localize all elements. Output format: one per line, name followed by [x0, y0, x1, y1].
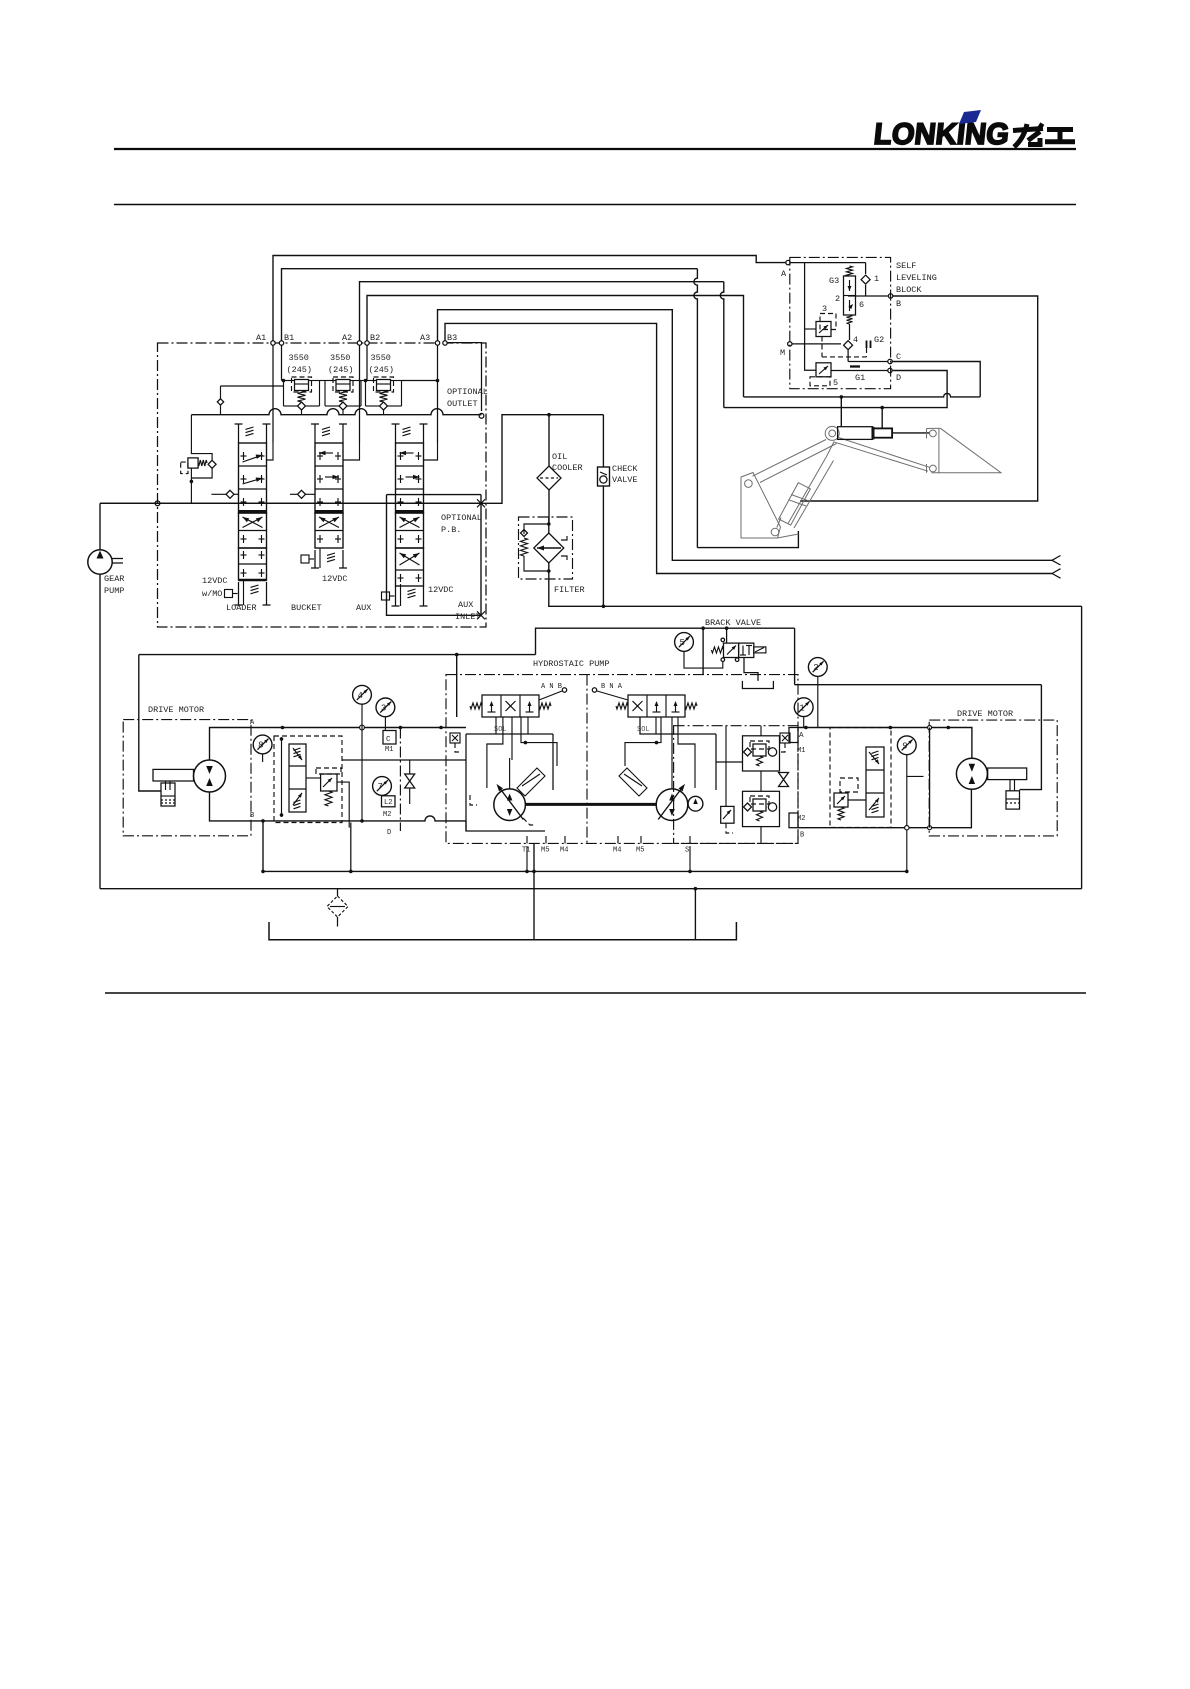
svg-text:4: 4: [358, 691, 363, 701]
right motor shaft: [988, 768, 1027, 780]
wire cooler to filter: [548, 490, 550, 524]
circle at block border crossing: [155, 501, 160, 506]
svg-text:G2: G2: [874, 335, 884, 345]
main gallery line through valve block: [100, 502, 481, 504]
LOADER spool heavy land: [239, 510, 267, 513]
fork end lower: [1052, 569, 1061, 574]
footer rule: [105, 992, 1086, 994]
wire A1 to self-leveling A: [273, 256, 786, 342]
gauge 1 stem: [803, 717, 805, 728]
wire gear pump return down: [99, 574, 101, 889]
BUCKET spool upper body: [315, 443, 343, 513]
sl G2 port: [866, 341, 868, 349]
x-mark aux inlet corner: [477, 611, 485, 619]
gauge 7 stem: [381, 794, 383, 796]
brack valve spring: [711, 647, 723, 653]
wire B3 long line to lower fork: [445, 323, 1052, 573]
spool bottom spring cell: [238, 582, 240, 605]
bucket cylinder: [838, 427, 873, 440]
port B self-leveling: [888, 294, 892, 298]
BUCKET spool heavy land: [315, 510, 343, 513]
sl valve 2/6 (spool): [844, 276, 856, 315]
wire A1 port drop: [272, 345, 274, 443]
sl valve 5: [816, 363, 831, 377]
brake feed drop to right motor: [794, 628, 796, 685]
svg-text:L2: L2: [384, 799, 392, 807]
sl wire A drop: [805, 263, 816, 371]
svg-text:FILTER: FILTER: [554, 585, 585, 595]
right motor inner box left edge: [929, 728, 931, 828]
AUX spool lower body: [396, 513, 424, 548]
gauge 3 stem: [384, 717, 386, 731]
check diamond bucket pilot: [298, 490, 306, 498]
hydrostatic pump dash-dot box: [446, 675, 798, 844]
bucket: [927, 428, 1002, 472]
logo Chinese characters 龙工: [1013, 124, 1043, 147]
svg-text:1: 1: [799, 703, 804, 713]
sl wire D internal: [831, 370, 888, 372]
pump shaft line: [525, 803, 656, 806]
LOADER spool top spring: [238, 424, 240, 443]
left pump swash actuator: [517, 768, 545, 796]
svg-text:VALVE: VALVE: [612, 475, 638, 485]
svg-text:(245): (245): [287, 365, 313, 375]
svg-text:BLOCK: BLOCK: [896, 285, 922, 295]
BUCKET spool top spring: [314, 424, 316, 443]
gauge 2: [808, 658, 827, 677]
svg-text:C: C: [896, 352, 901, 362]
wire to bucket cylinder rod: [881, 408, 883, 429]
svg-text:B3: B3: [447, 333, 457, 343]
svg-text:S: S: [685, 847, 689, 855]
right mid spool: [866, 747, 884, 817]
svg-text:w/MO: w/MO: [202, 589, 222, 599]
spool bottom spring cell: [314, 550, 316, 568]
gauge 5: [675, 633, 694, 652]
right side riser: [905, 870, 909, 874]
svg-text:P.B.: P.B.: [441, 525, 461, 535]
left pump case drain: [523, 818, 536, 825]
svg-text:B1: B1: [284, 333, 294, 343]
charge pump: [688, 796, 703, 811]
left valve drain riser: [350, 823, 352, 872]
filter element: [534, 533, 564, 563]
LOADER spool extension: [239, 548, 267, 580]
gauge 3: [376, 698, 395, 717]
svg-text:DRIVE MOTOR: DRIVE MOTOR: [148, 705, 204, 715]
bucket cylinder rod: [892, 432, 930, 434]
tank line: [269, 922, 736, 940]
AUX spool extension: [396, 548, 424, 586]
svg-text:OUTLET: OUTLET: [447, 399, 478, 409]
pilot relief valve (inlet): [181, 462, 188, 474]
wire A2 to self-leveling D: [360, 282, 724, 341]
svg-text:SOL: SOL: [637, 726, 650, 734]
svg-text:M5: M5: [541, 847, 549, 855]
svg-text:9: 9: [902, 742, 907, 752]
optional outlet wire: [447, 343, 482, 411]
svg-text:BRACK VALVE: BRACK VALVE: [705, 618, 761, 628]
svg-text:D: D: [387, 829, 391, 837]
left brake cylinder: [161, 783, 175, 806]
sl wire B internal: [848, 295, 889, 297]
wire A3 port drop: [437, 345, 439, 443]
pilot valve right (B N A): [628, 695, 685, 717]
svg-text:A2: A2: [342, 333, 352, 343]
svg-text:M4: M4: [560, 847, 568, 855]
wire brake release line: [139, 655, 161, 791]
svg-text:5: 5: [680, 638, 685, 648]
hydrostatic pump right rotor: [656, 789, 688, 821]
svg-text:COOLER: COOLER: [552, 463, 583, 473]
svg-text:M: M: [780, 348, 785, 358]
left motor return riser: [262, 821, 264, 872]
wire cooler feed vertical: [548, 415, 550, 467]
suction strainer: [337, 889, 339, 896]
wire left block bottom crossover: [342, 816, 466, 821]
gauge 5 stem: [684, 652, 723, 669]
svg-text:DRIVE MOTOR: DRIVE MOTOR: [957, 709, 1013, 719]
svg-text:2: 2: [835, 294, 840, 304]
header rule upper: [114, 148, 1076, 150]
svg-text:AUX: AUX: [458, 600, 473, 610]
port M2 box right pump: [789, 813, 798, 828]
wire A2 into bucket spool: [343, 443, 360, 460]
svg-text:8: 8: [258, 741, 263, 751]
filter dash-dot box: [519, 517, 573, 579]
intermediate return line: [263, 870, 908, 872]
svg-text:INLET: INLET: [455, 612, 481, 622]
brack valve body: [724, 643, 739, 657]
check valve: [602, 415, 604, 467]
logo blue i-dot: [959, 110, 981, 124]
svg-text:12VDC: 12VDC: [202, 576, 228, 586]
gauge 4 stem: [361, 704, 363, 821]
control valve block dash-dot border: [158, 343, 487, 627]
pressure cutoff valve: [721, 806, 734, 823]
svg-text:12VDC: 12VDC: [428, 585, 454, 595]
wire B1 to boom cylinder rod end: [282, 269, 698, 341]
LOADER spool arrows: [243, 455, 263, 462]
left pump solenoid box: [450, 733, 460, 743]
svg-text:A1: A1: [256, 333, 266, 343]
svg-text:M4: M4: [613, 847, 621, 855]
svg-text:A: A: [799, 732, 804, 740]
sl valve 3: [820, 314, 836, 330]
svg-text:B: B: [800, 832, 804, 840]
left pump drain symbols: [470, 795, 477, 805]
svg-text:6: 6: [859, 300, 864, 310]
gauge 8 stem: [262, 754, 264, 762]
svg-text:B: B: [896, 299, 901, 309]
gauge4 crossing circle: [360, 725, 365, 730]
brack valve port circles: [721, 638, 725, 642]
AUX spool heavy land: [396, 510, 424, 513]
charge relief block upper: [743, 736, 780, 771]
svg-text:7: 7: [378, 782, 383, 792]
svg-text:LONKING: LONKING: [872, 118, 1010, 151]
right brake cylinder: [1006, 791, 1020, 809]
fork end upper: [1052, 556, 1061, 561]
port M self-leveling: [788, 342, 792, 346]
svg-text:1: 1: [874, 274, 879, 284]
svg-text:B2: B2: [370, 333, 380, 343]
wire right motor A: [798, 728, 972, 759]
gauge 2 stem: [817, 677, 819, 728]
svg-text:SELF: SELF: [896, 261, 916, 271]
port A box right pump: [789, 728, 798, 743]
sl wire M: [792, 343, 841, 345]
svg-text:G1: G1: [855, 373, 865, 383]
T1 drain to return: [526, 846, 528, 871]
upper distribution line: [139, 654, 536, 656]
svg-text:A N B: A N B: [541, 683, 562, 691]
pump bottom port stubs: [526, 836, 528, 843]
hydrostatic pump left rotor: [494, 789, 526, 821]
svg-text:(245): (245): [328, 365, 354, 375]
svg-text:3550: 3550: [330, 353, 350, 363]
gauge 7: [373, 777, 392, 796]
svg-text:PUMP: PUMP: [104, 586, 124, 596]
svg-text:4: 4: [853, 335, 858, 345]
svg-text:B N A: B N A: [601, 683, 623, 691]
tank drop left: [533, 843, 535, 939]
wire B2 to self-leveling C: [367, 296, 744, 397]
sl check valve 1: [865, 263, 867, 274]
left pump loop wires: [466, 734, 545, 831]
svg-text:M1: M1: [385, 746, 393, 754]
riser to brake feed line: [536, 628, 795, 654]
header rule lower: [114, 204, 1076, 206]
relief gallery connecting segments: [282, 380, 284, 382]
relief drain drop: [337, 782, 349, 828]
spool solenoid: [301, 555, 309, 563]
svg-text:LOADER: LOADER: [226, 603, 257, 613]
outer return loop right: [1081, 606, 1083, 888]
right pump solenoid box: [780, 733, 790, 743]
svg-text:12VDC: 12VDC: [322, 574, 348, 584]
port A self-leveling: [786, 260, 790, 264]
wire to brack valve pilot: [726, 628, 728, 643]
BUCKET spool lower body: [315, 513, 343, 548]
left block internal riser: [281, 737, 283, 817]
gauge 4: [353, 685, 372, 704]
wire B2 port drop: [366, 345, 368, 381]
svg-text:(245): (245): [369, 365, 395, 375]
check diamond loader pilot: [226, 490, 234, 498]
svg-text:A3: A3: [420, 333, 430, 343]
svg-text:3550: 3550: [371, 353, 391, 363]
svg-text:D: D: [896, 373, 901, 383]
x-mark main line at block edge: [477, 499, 485, 507]
sl dashed pilot lines: [822, 356, 867, 358]
svg-text:3: 3: [381, 704, 386, 714]
wire left block to pump: [342, 727, 466, 729]
svg-text:CHECK: CHECK: [612, 464, 638, 474]
AUX spool top spring: [395, 424, 397, 443]
needle valve right: [779, 773, 789, 787]
internal feed gallery line: [191, 409, 481, 415]
svg-text:C: C: [386, 736, 391, 744]
self leveling block dash-dot border: [790, 257, 891, 388]
LOADER spool upper body: [239, 443, 267, 513]
svg-text:3550: 3550: [289, 353, 309, 363]
svg-text:A: A: [781, 269, 787, 279]
svg-text:T1: T1: [522, 847, 530, 855]
relief valve 3550 #3: [374, 377, 394, 392]
gauge 1: [794, 698, 813, 717]
wire right motor B: [798, 789, 971, 827]
svg-text:AUX: AUX: [356, 603, 371, 613]
sl wire C internal: [848, 361, 888, 363]
spool solenoid: [382, 592, 390, 600]
left pump servo wires: [487, 717, 503, 788]
needle valve left: [405, 774, 415, 788]
gauge 9: [897, 736, 916, 755]
left motor shaft: [153, 769, 194, 781]
wire left motor B line: [210, 792, 343, 821]
relief valve 3550 #1: [292, 377, 312, 392]
port D self-leveling: [888, 368, 892, 372]
filter internal wires: [524, 524, 549, 534]
wire brake feed to right motor: [795, 684, 1042, 686]
drop to right pump control: [702, 628, 704, 674]
svg-text:5: 5: [833, 378, 838, 388]
svg-text:LEVELING: LEVELING: [896, 273, 937, 283]
port circles A1-B3: [271, 341, 275, 345]
brack valve tank wires: [744, 658, 758, 681]
relief valve 3550 #2: [333, 377, 353, 392]
wire right brake release: [1020, 685, 1042, 790]
svg-text:M5: M5: [636, 847, 644, 855]
right mid reducing valve: [834, 793, 848, 807]
hydrostatic pump divider: [586, 675, 588, 844]
filter bypass spring: [521, 538, 528, 556]
svg-text:M2: M2: [383, 811, 391, 819]
right mid valve block (dashed): [830, 728, 891, 828]
right motor: [956, 758, 987, 789]
right pump swash actuator: [619, 768, 647, 796]
S suction stub: [689, 846, 691, 871]
wire A3 long line to upper fork: [438, 310, 1053, 561]
wire gear pump to oil cooler (supply): [99, 503, 101, 550]
spool bottom spring cell: [395, 586, 397, 606]
svg-text:GEAR: GEAR: [104, 574, 124, 584]
gauge 9 stem: [906, 755, 908, 872]
left mid valve block (dashed): [274, 736, 342, 823]
AUX spool arrows: [400, 452, 414, 454]
charge relief block lower: [743, 791, 780, 826]
wire B1 port drop: [281, 345, 283, 381]
left drive motor dash-dot box: [123, 720, 251, 836]
right charge/brake sub-block dash-dot box: [674, 726, 798, 844]
wire B3 stub to optional outlet: [444, 343, 446, 345]
svg-text:2: 2: [813, 663, 818, 673]
wire A3 into aux spool: [424, 443, 438, 460]
svg-text:3: 3: [822, 304, 827, 314]
port L2 box: [382, 796, 396, 807]
wire feed into pump block: [456, 655, 458, 717]
OPTIONAL P.B. box: [387, 495, 482, 616]
right block internal wires: [760, 726, 762, 736]
gauge 8: [253, 735, 272, 754]
loader arm linkage: [741, 426, 930, 538]
feed gallery end circle: [479, 413, 484, 418]
oil cooler: [537, 466, 561, 490]
gear pump: [88, 550, 112, 574]
right pump servo wires: [678, 717, 695, 788]
svg-text:OIL: OIL: [552, 452, 567, 462]
AUX spool upper body: [396, 443, 424, 513]
wire to bucket cylinder head: [840, 397, 842, 427]
left mid spool: [289, 744, 306, 812]
svg-text:G3: G3: [829, 276, 839, 286]
wire check valve down: [602, 486, 604, 606]
spool solenoid: [225, 590, 233, 598]
wire filter down and right: [549, 579, 1082, 606]
sl wire through valve2: [849, 324, 851, 340]
svg-text:M2: M2: [797, 815, 805, 823]
right mid wires: [848, 799, 866, 801]
ports column dash-dot boundary: [399, 728, 401, 832]
feed tap check diamond left: [217, 399, 223, 405]
svg-text:HYDROSTAIC PUMP: HYDROSTAIC PUMP: [533, 659, 610, 669]
port C box: [383, 731, 396, 745]
return line bottom: [100, 888, 1082, 890]
LOADER spool lower body: [239, 513, 267, 548]
wire A2 port drop: [359, 345, 361, 443]
sl check valve 4: [844, 341, 853, 350]
right pump loop wires: [715, 734, 717, 790]
wire B port to boom cylinder: [800, 296, 1038, 501]
svg-text:OPTIONAL: OPTIONAL: [441, 513, 482, 523]
pilot valve left (A N B): [482, 695, 539, 717]
sl G1 plug: [850, 365, 860, 367]
wire left motor A line: [210, 728, 343, 761]
right drive motor dash-dot box: [929, 720, 1057, 836]
brack valve solenoid stub: [754, 647, 766, 653]
left mid relief: [321, 774, 337, 791]
BUCKET spool arrows: [319, 452, 333, 454]
left motor: [194, 760, 226, 792]
tank drop right: [694, 889, 696, 940]
wire A1 into loader spool: [267, 443, 274, 460]
sl internal: A top run: [790, 262, 866, 264]
svg-text:BUCKET: BUCKET: [291, 603, 322, 613]
port C self-leveling: [888, 359, 892, 363]
